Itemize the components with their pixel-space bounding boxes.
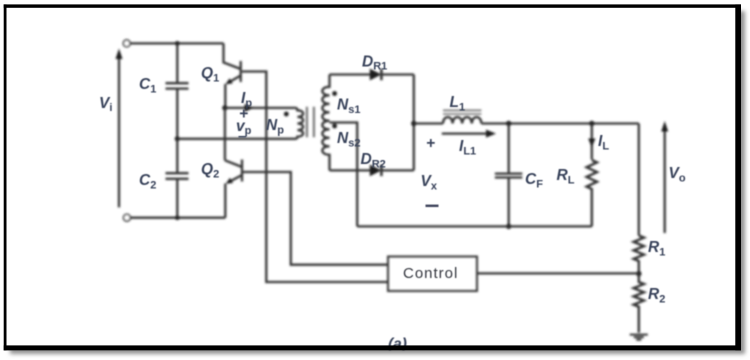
resistor R2 bbox=[634, 274, 644, 333]
wire L1 to output rail bbox=[481, 122, 638, 124]
wire output rail right corner down bbox=[638, 124, 640, 236]
diode DR2 bbox=[370, 165, 414, 177]
wire Q1 emitter to primary top bbox=[225, 107, 295, 109]
wire output bottom rail bbox=[357, 225, 592, 227]
wire center tap bbox=[330, 123, 358, 227]
wire secondary bottom to DR2 bbox=[330, 169, 371, 171]
svg-text:Control: Control bbox=[403, 265, 458, 282]
transformer secondary Ns1 winding bbox=[322, 75, 329, 121]
transistor Q2 bbox=[225, 160, 242, 218]
node CF top junction bbox=[506, 121, 511, 126]
node Q1 emitter junction bbox=[222, 105, 227, 110]
wire secondary top to DR1 bbox=[330, 73, 371, 75]
diode DR1 bbox=[370, 69, 414, 81]
transformer primary Np winding bbox=[295, 108, 304, 139]
wire DR1 output down bbox=[413, 75, 415, 171]
node C1-top junction bbox=[175, 41, 180, 46]
arrow IL1 bbox=[442, 130, 496, 138]
resistor R1 bbox=[634, 236, 644, 274]
transformer core bbox=[307, 107, 314, 138]
capacitor C2 bbox=[166, 139, 189, 218]
terminal Vi+ bbox=[123, 40, 130, 47]
transformer secondary Ns2 winding bbox=[322, 121, 329, 171]
capacitor C1 bbox=[166, 43, 189, 138]
node rectifier output junction bbox=[411, 121, 416, 126]
resistor RL bbox=[587, 160, 597, 226]
dot Ns2 polarity bbox=[332, 124, 337, 129]
wire Q1e-Q2c vertical bbox=[224, 108, 226, 160]
wire mid-rail to primary bbox=[177, 138, 294, 140]
wire control feedback bbox=[477, 272, 639, 274]
capacitor CF bbox=[495, 124, 522, 227]
arrow Vo bbox=[661, 121, 668, 233]
control block bbox=[388, 257, 477, 292]
wire junction to L1 bbox=[414, 122, 443, 124]
svg-text:+: + bbox=[426, 135, 435, 152]
dot Ns1 polarity bbox=[332, 91, 337, 96]
terminal Vi- bbox=[124, 214, 131, 221]
wire top rail bbox=[130, 42, 224, 44]
inductor L1 core lines bbox=[443, 110, 481, 114]
arrow IL on RL wire bbox=[588, 124, 595, 160]
node mid-rail junction bbox=[175, 136, 180, 141]
wire bottom rail bbox=[130, 217, 225, 219]
wire Q1 base drive bbox=[242, 72, 388, 283]
arrow Vi bbox=[116, 49, 123, 208]
wire Q2 base drive bbox=[242, 172, 388, 265]
node R1-R2 junction bbox=[636, 271, 641, 276]
inductor L1 bbox=[443, 117, 481, 123]
node C2-bottom junction bbox=[175, 215, 180, 220]
transistor Q1 bbox=[224, 43, 241, 108]
svg-text:–: – bbox=[238, 128, 247, 145]
label Vx minus bbox=[426, 205, 439, 207]
ground bbox=[630, 335, 648, 340]
arrow Ip on wire bbox=[245, 104, 255, 112]
node CF bottom junction bbox=[506, 224, 511, 229]
node RL top junction bbox=[589, 121, 594, 126]
dot Np polarity bbox=[284, 112, 289, 117]
